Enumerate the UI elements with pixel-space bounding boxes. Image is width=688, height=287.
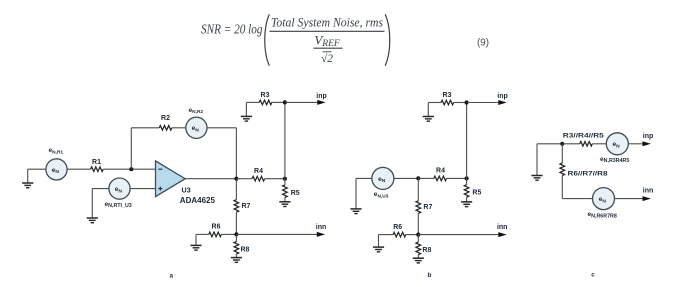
wire R5 node up to inp node <box>284 102 286 178</box>
svg-text:(9): (9) <box>477 38 489 49</box>
junction inn node <box>416 233 420 237</box>
wire inn node to arrow <box>418 234 498 236</box>
wire R6 to inn node <box>406 234 419 236</box>
noise source eN,R1 <box>46 159 67 180</box>
label subfigure a <box>170 272 174 279</box>
wire ground to eN,R1 <box>28 168 46 170</box>
svg-text:R2: R2 <box>161 115 170 122</box>
label net inn <box>643 188 654 195</box>
svg-text:c: c <box>591 272 595 279</box>
junction node <box>560 142 564 146</box>
junction inverting input node <box>129 167 133 171</box>
label R3 <box>261 92 270 99</box>
label R6 <box>212 224 221 231</box>
wire R4 to R5 node <box>265 178 285 180</box>
noise source eN,R3R4R5 <box>606 133 628 155</box>
noise source eN,R6R7R8 <box>593 188 615 210</box>
wire output node to R4 <box>236 178 252 180</box>
resistor R5 <box>283 179 288 202</box>
resistor R8 <box>234 234 239 257</box>
wire R1 to node <box>103 168 155 170</box>
resistor R3//R4//R5 <box>580 142 593 147</box>
svg-text:R3: R3 <box>261 92 270 99</box>
wire feedback to R2 <box>131 127 159 129</box>
wire eN,R1 to R1 <box>67 168 91 170</box>
junction output node <box>234 177 238 181</box>
op-amp U3 ADA4625 <box>156 161 186 197</box>
noise source eN,RTI_U3 <box>109 178 130 199</box>
junction R4/R5 node <box>465 176 469 180</box>
label subfigure b <box>427 272 431 279</box>
svg-text:R6: R6 <box>393 224 402 231</box>
wire ground to eN,RTI_U3 <box>92 188 109 190</box>
wire ground to junction <box>537 143 562 145</box>
ground (left of R3) <box>241 102 252 121</box>
svg-text:ADA4625: ADA4625 <box>180 196 216 205</box>
label net inp <box>316 93 327 100</box>
svg-text:inn: inn <box>316 224 327 231</box>
ground (below R5) <box>461 202 472 207</box>
wire ground to eN,U3 <box>356 177 372 179</box>
arrow inn <box>643 196 651 201</box>
wire op-amp output to node <box>185 178 236 180</box>
arrow inp <box>498 100 506 105</box>
wire R5 node up to inp node <box>466 103 468 179</box>
ground (below eN,RTI_U3) <box>87 189 98 223</box>
wire feedback vertical left <box>130 128 132 169</box>
resistor R6 <box>209 232 222 237</box>
resistor R7 <box>416 178 421 234</box>
wire inp node to arrow <box>285 101 318 103</box>
arrow inn <box>498 232 506 237</box>
label net inp <box>643 133 654 140</box>
label eN,R2 <box>189 107 204 115</box>
resistor R6 <box>393 232 406 237</box>
svg-text:U3: U3 <box>182 186 191 195</box>
svg-text:b: b <box>427 272 431 279</box>
wire eN,R2 to output branch <box>207 127 236 129</box>
label eN,U3 <box>374 191 389 199</box>
ground (left of R3) <box>423 103 434 122</box>
resistor R4 <box>252 176 265 181</box>
resistor R3 <box>441 100 454 105</box>
wire ground to R6 <box>379 234 394 236</box>
wire to eN,R6R7R8 <box>562 198 592 200</box>
wire R3 to inp node <box>454 102 467 104</box>
wire ground to R3 <box>246 101 259 103</box>
svg-text:R1: R1 <box>92 159 101 166</box>
resistor R7 <box>234 179 239 235</box>
label net inn <box>497 224 508 231</box>
svg-text:R7: R7 <box>242 203 251 210</box>
label R6//R7//R8 <box>568 170 608 177</box>
svg-text:inp: inp <box>316 93 327 100</box>
label U3 <box>182 186 191 195</box>
label net inn <box>316 224 327 231</box>
wire eN,R6R7R8 to arrow <box>615 198 643 200</box>
label R1 <box>92 159 101 166</box>
svg-text:R3: R3 <box>443 92 452 99</box>
label R3//R4//R5 <box>563 133 604 140</box>
svg-text:inp: inp <box>643 133 654 140</box>
junction R4/R5 node <box>283 177 287 181</box>
ground (below R8) <box>413 258 424 263</box>
junction inp node <box>283 100 287 104</box>
svg-text:R7: R7 <box>423 204 432 211</box>
wire inn node to arrow <box>236 233 317 235</box>
label eN,R6R7R8 <box>588 211 617 219</box>
ground (below eN,U3) <box>350 178 361 213</box>
label R4 <box>254 168 263 175</box>
label R7 <box>242 203 251 210</box>
label subfigure c <box>591 272 595 279</box>
wire inp node to arrow <box>467 102 499 104</box>
resistor R8 <box>416 235 421 259</box>
svg-text:R5: R5 <box>472 190 481 197</box>
svg-text:R3//R4//R5: R3//R4//R5 <box>563 133 604 140</box>
wire junction to R3//R4//R5 <box>562 143 579 145</box>
wire node to R4 <box>418 177 434 179</box>
ground (left of R6) <box>373 235 384 252</box>
ground (left of R6) <box>190 234 201 250</box>
label R4 <box>436 168 445 175</box>
label eN,R3R4R5 <box>600 156 629 164</box>
wire R3 to inp node <box>272 101 285 103</box>
svg-text:R5: R5 <box>291 190 300 197</box>
equation SNR = 20 log(Total System Noise, rms / (VREF/sqrt2)) <box>201 14 390 66</box>
resistor R2 <box>159 126 172 131</box>
junction center node <box>416 176 420 180</box>
svg-text:R6: R6 <box>212 224 221 231</box>
svg-text:a: a <box>170 272 174 279</box>
arrow inp <box>317 100 325 105</box>
resistor R6//R7//R8 <box>560 144 565 199</box>
wire eN,RTI_U3 to op-amp <box>130 188 155 190</box>
ground (below R5) <box>279 202 290 207</box>
label eN,RTI_U3 <box>105 201 132 209</box>
wire feedback vertical right <box>235 128 237 179</box>
label R2 <box>161 115 170 122</box>
label R8 <box>241 247 250 254</box>
label R6 <box>393 224 402 231</box>
wire R3//R4//R5 to eN,R3R4R5 <box>592 143 606 145</box>
label R8 <box>422 247 431 254</box>
svg-text:inp: inp <box>497 93 508 100</box>
svg-text:SNR = 20 log: SNR = 20 log <box>201 22 263 37</box>
label R5 <box>472 190 481 197</box>
svg-text:√2: √2 <box>321 52 333 65</box>
junction inp node <box>465 100 469 104</box>
wire eN,U3 to node <box>394 177 418 179</box>
wire ground to R3 <box>428 102 441 104</box>
wire R6 to inn node <box>221 233 236 235</box>
wire eN,R3R4R5 to arrow <box>628 143 643 145</box>
ground (circuit c) <box>531 144 542 180</box>
svg-text:R6//R7//R8: R6//R7//R8 <box>568 170 608 177</box>
svg-text:Total System Noise, rms: Total System Noise, rms <box>271 15 383 29</box>
svg-text:R8: R8 <box>241 247 250 254</box>
junction inn node <box>234 232 238 236</box>
svg-text:inn: inn <box>497 224 508 231</box>
label net inp <box>497 93 508 100</box>
label R7 <box>423 204 432 211</box>
noise source eN,R2 <box>186 117 207 138</box>
resistor R5 <box>464 178 469 202</box>
resistor R4 <box>434 176 447 181</box>
ground (left of eN,R1) <box>22 169 33 188</box>
label eN,R1 <box>49 147 64 155</box>
svg-text:R4: R4 <box>436 168 445 175</box>
svg-text:inn: inn <box>643 188 654 195</box>
resistor R1 <box>91 167 104 172</box>
label R5 <box>291 190 300 197</box>
wire ground to R6 <box>196 233 209 235</box>
svg-text:R8: R8 <box>422 247 431 254</box>
wire R4 to R5 node <box>447 177 467 179</box>
arrow inp <box>643 141 651 146</box>
label R3 <box>443 92 452 99</box>
wire R2 to eN,R2 <box>172 127 186 129</box>
noise source eN,U3 <box>372 167 394 189</box>
resistor R3 <box>259 100 272 105</box>
svg-text:R4: R4 <box>254 168 263 175</box>
ground (below R8) <box>231 258 242 263</box>
label ADA4625 <box>180 196 216 205</box>
arrow inn <box>317 232 325 237</box>
